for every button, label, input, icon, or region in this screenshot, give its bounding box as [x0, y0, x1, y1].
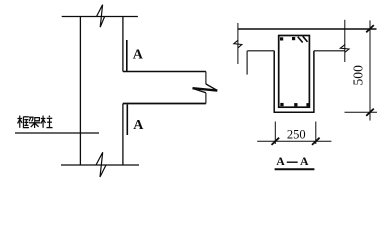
- svg-text:A: A: [133, 48, 144, 63]
- slab left break bolt: [234, 40, 242, 48]
- bottom rebar dot right: [306, 103, 309, 106]
- svg-text:A: A: [133, 118, 144, 133]
- svg-text:A: A: [276, 154, 285, 168]
- top rebar dot left: [280, 37, 283, 40]
- svg-text:250: 250: [287, 128, 306, 142]
- bottom rebar dot left: [280, 103, 283, 106]
- column bottom boundary line: [61, 164, 139, 166]
- leader line under 框架柱: [15, 132, 99, 134]
- dimension tick right 250: [312, 138, 320, 145]
- bottom rebar dot middle: [294, 103, 297, 106]
- slab bottom line right: [314, 50, 345, 52]
- beam end break line lower: [205, 93, 207, 104]
- column left edge line: [79, 17, 81, 166]
- label 框架柱 character 架: [29, 117, 40, 128]
- slab right break bolt: [340, 45, 349, 53]
- beam end break line upper: [205, 72, 207, 85]
- dimension line 500: [369, 20, 371, 120]
- column top break symbol: [97, 5, 105, 28]
- top rebar dot middle: [292, 37, 295, 40]
- slab right break line: [344, 20, 346, 62]
- slab left break line: [237, 23, 239, 64]
- dimension line 250: [257, 140, 331, 142]
- beam section right edge: [313, 51, 315, 112]
- section title dash: [287, 161, 298, 163]
- column bottom break symbol: [96, 152, 106, 177]
- dimension tick bottom 500: [366, 109, 374, 116]
- beam section left edge: [273, 51, 275, 112]
- section cut line A upper: [126, 40, 128, 71]
- label 框架柱 character 框: [17, 116, 29, 128]
- dimension tick left 250: [272, 138, 280, 145]
- slab top line: [238, 28, 377, 30]
- slab bottom line left: [247, 50, 274, 52]
- column right edge line lower: [122, 104, 124, 166]
- beam bottom edge line: [123, 103, 206, 105]
- adjacent beam edge line below slab at left: [246, 51, 248, 75]
- dimension extension line left of 250: [274, 122, 276, 145]
- dimension extension line right of 250: [315, 122, 317, 145]
- column top boundary line: [62, 16, 138, 18]
- beam end break bolt: [206, 84, 217, 90]
- stirrup hook marks: [298, 36, 308, 42]
- extension line bottom of 500: [345, 111, 378, 113]
- dimension tick top 500: [366, 25, 374, 32]
- section title underline: [275, 168, 315, 170]
- svg-text:500: 500: [350, 65, 365, 86]
- beam top edge line: [123, 71, 206, 73]
- stirrup rectangle: [279, 36, 310, 108]
- label 框架柱 character 柱: [41, 116, 53, 128]
- section cut line A lower: [126, 105, 128, 136]
- beam section bottom edge: [274, 111, 315, 113]
- column right edge line upper: [122, 17, 124, 72]
- svg-text:A: A: [300, 154, 309, 168]
